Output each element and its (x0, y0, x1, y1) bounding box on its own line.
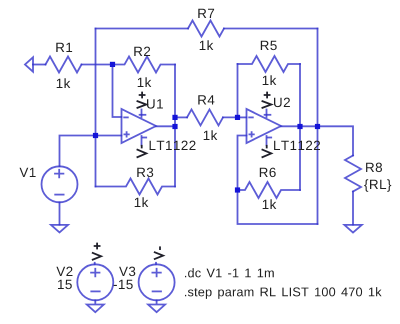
node A junction (R1/R2/U1-) (110, 62, 115, 67)
wire R8 to ground (352, 192, 354, 225)
value R2 1k (138, 77, 152, 87)
label R4 (198, 95, 214, 104)
resistor R3 (96, 179, 176, 195)
value R7 1k (200, 40, 214, 50)
wire R6 bottom loop (238, 190, 318, 224)
op-amp U1 plus input mark (124, 132, 128, 136)
resistor R7 (188, 21, 224, 37)
wire R5 left leg (237, 64, 239, 117)
label V3 (119, 267, 135, 277)
value R3 1k (135, 197, 149, 207)
op-amp U2 triangle (247, 109, 282, 143)
label R1 (56, 43, 72, 52)
value R5 1k (263, 75, 277, 85)
wire V1 to ground (59, 202, 61, 224)
op-amp U2 V+ inner plus (265, 114, 271, 116)
voltage source V1 circle (42, 166, 78, 202)
ground under V3 (148, 300, 165, 312)
value R4 1k (204, 130, 218, 140)
value R8 {RL} (364, 179, 391, 192)
V3 minus mark (153, 290, 161, 292)
op-amp U1 V+ pin stub (141, 110, 143, 118)
junction U2 inverting node (235, 115, 240, 120)
op-amp U2 V+ pin stub (266, 110, 268, 118)
op-amp U1 triangle (122, 109, 157, 143)
V3 plus mark (152, 269, 160, 277)
flag V- below U1: chevron V (137, 149, 147, 157)
op-amp U1 minus input mark (124, 116, 128, 118)
wire R1 to node A (82, 64, 113, 66)
junction U1 output (172, 124, 177, 129)
junction R6 left (235, 187, 240, 192)
voltage source V2 circle (77, 264, 113, 300)
wire top horizontal to R7 (96, 28, 189, 30)
V1 minus mark (55, 194, 63, 196)
wire U2 output to R8 (281, 126, 353, 155)
label R3 (137, 168, 153, 178)
spice directive .dc (185, 268, 274, 277)
resistor R8 vertical (345, 156, 361, 192)
voltage source V3 circle (139, 264, 175, 300)
value V3 -15 (114, 280, 133, 289)
resistor R2 (113, 57, 176, 73)
flag V- below U2: minus (266, 145, 268, 149)
flag V+ above U2: plus (264, 92, 271, 99)
value U2 LT1122 (274, 141, 320, 150)
value U1 LT1122 (150, 141, 196, 150)
flag V+ above U1: chevron V (137, 101, 147, 108)
flag V- below U1: minus (141, 145, 143, 149)
resistor R1 (46, 57, 82, 73)
wire R2 right leg down (x=175) (174, 65, 176, 187)
flag V- above V3: minus (159, 246, 161, 250)
label V2 (56, 267, 72, 276)
junction R4 left (172, 115, 177, 120)
label U2 (274, 98, 290, 108)
V1 plus mark (55, 170, 63, 178)
label U1 (147, 99, 163, 108)
wire left long vertical x=95.5 (R7 branch down to R3) (95, 29, 97, 187)
flag V+ above V2: plus (94, 243, 101, 250)
op-amp U2 minus input mark (249, 116, 253, 118)
op-amp U1 V- inner minus (143, 137, 147, 139)
wire R5 right leg down x=300 (299, 64, 301, 190)
ground under R8 (344, 225, 361, 233)
flag V+ above V2: chevron V (92, 253, 101, 260)
wire output node to R4 (175, 116, 187, 118)
ground under V2 (87, 300, 104, 312)
junction feedback at output (315, 124, 320, 129)
label V1 (20, 168, 36, 177)
wire R7 to right vertical (224, 28, 318, 30)
op-amp U1 V+ inner plus (140, 114, 146, 116)
spice directive .step (185, 287, 382, 299)
label R8 (366, 163, 382, 173)
value R1 1k (57, 78, 71, 88)
resistor R5 (238, 56, 301, 72)
resistor R6 (238, 182, 301, 198)
label R6 (260, 168, 276, 178)
wire R4 to U2 inverting node (223, 116, 238, 118)
input flag arrow (25, 57, 33, 71)
op-amp U2 V- pin stub (266, 136, 268, 145)
V2 flag pin stub (94, 263, 96, 265)
wire right vertical x=317.5 down to bottom loop (317, 29, 319, 225)
flag V- below U2: chevron V (262, 149, 272, 157)
wire U1 output to x=175 (156, 125, 175, 127)
V2 minus mark (91, 290, 99, 292)
flag V+ above U1: plus (139, 92, 146, 99)
flag glyphs (net labels V+ / V-) (92, 92, 271, 260)
flag V+ above U2: chevron V (262, 101, 272, 108)
op-amp U1 V- pin stub (141, 136, 143, 145)
label R5 (261, 41, 277, 50)
wire node A down to U1 inverting input (113, 65, 122, 118)
V2 plus mark (91, 269, 99, 277)
op-amp U2 V- inner minus (268, 137, 272, 139)
junction R5 right at output (297, 124, 302, 129)
junction U1+ node (93, 133, 98, 138)
wire flag to R1 (33, 64, 46, 66)
value V2 15 (58, 280, 72, 289)
wire U2 non-inverting input from R6 node (238, 136, 247, 191)
wire V1 to U1 non-inverting input (60, 136, 122, 167)
value R6 1k (263, 199, 277, 209)
V3 flag pin stub (155, 263, 157, 265)
label R2 (134, 47, 150, 56)
ground under V1 (51, 225, 68, 233)
wire U2 inverting input (238, 116, 247, 118)
op-amp U2 plus input mark (249, 132, 253, 136)
label R7 (198, 9, 214, 18)
resistor R4 (187, 109, 223, 125)
junction dots (93, 62, 320, 193)
flag V- above V3: chevron V (154, 252, 163, 259)
